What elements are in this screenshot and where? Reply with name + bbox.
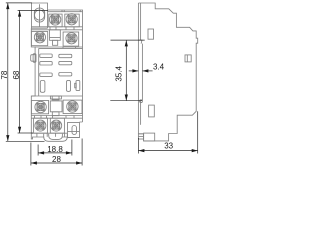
svg-text:35.4: 35.4 — [115, 66, 124, 82]
svg-text:33: 33 — [164, 141, 173, 150]
svg-text:78: 78 — [0, 70, 9, 79]
svg-text:3.4: 3.4 — [153, 62, 165, 71]
svg-text:18.8: 18.8 — [47, 145, 63, 154]
svg-text:68: 68 — [12, 70, 21, 79]
svg-text:28: 28 — [52, 155, 61, 164]
